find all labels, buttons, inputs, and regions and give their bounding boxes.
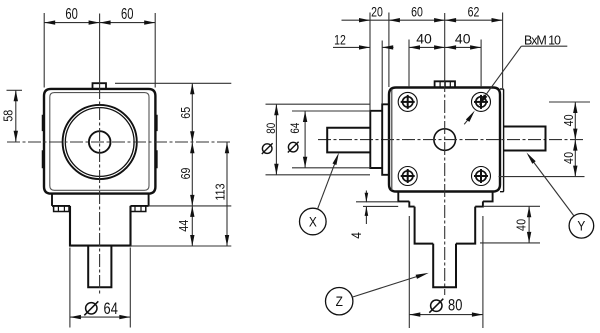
dimension 65/69/44 chain: extension lines xyxy=(115,82,231,84)
left view: right side lug upper xyxy=(155,116,157,131)
right view: bottom step Dia80 xyxy=(409,201,483,206)
dimension 4: dimension line and arrows xyxy=(365,191,367,203)
dimension 12: dimension line and arrows xyxy=(333,46,370,48)
axis label Y circle xyxy=(569,214,594,239)
right view: right cover plate xyxy=(500,89,504,192)
dimension 40 bottom boss: extension lines xyxy=(484,205,540,207)
dimension 12: extension line xyxy=(381,41,383,105)
left view: bearing bore outer circle xyxy=(63,105,137,179)
left view: right side lug lower xyxy=(155,151,157,168)
screw hole top-right M10 xyxy=(472,92,491,111)
left view: left foot xyxy=(54,206,69,212)
svg-text:58: 58 xyxy=(0,109,15,121)
svg-text:80: 80 xyxy=(448,297,462,315)
svg-text:62: 62 xyxy=(468,4,480,20)
left view: left side lug lower xyxy=(43,151,45,168)
dimension 58: extension line xyxy=(7,89,23,91)
svg-text:40: 40 xyxy=(562,114,576,126)
left view: top tab boss xyxy=(93,83,107,89)
svg-text:69: 69 xyxy=(178,167,193,179)
svg-text:40: 40 xyxy=(455,30,471,46)
screw hole top-left M10 xyxy=(398,92,417,111)
left view: gearbox body outline xyxy=(44,89,155,194)
right view: bottom boss Dia64 xyxy=(415,207,476,244)
dimension 40/40 right side: dimension line xyxy=(574,102,576,177)
dimension Dia64 left: dimension line xyxy=(304,111,306,168)
axis label Z circle xyxy=(326,288,353,315)
right view: input shaft X xyxy=(327,128,370,153)
axis label Y leader arrow xyxy=(528,155,574,216)
dimension Dia80 bottom: dimension line xyxy=(409,314,483,316)
dimension Dia64 bottom: extension lines xyxy=(69,248,71,328)
dimension 40 bottom boss: dimension line xyxy=(528,206,530,243)
axis label Z leader arrow xyxy=(352,276,418,297)
svg-text:Z: Z xyxy=(336,293,343,309)
dimension 40/40 right side: extension lines xyxy=(549,101,590,103)
label BxM 10 second arrow xyxy=(464,117,470,125)
left view: neck boss Dia64 xyxy=(70,206,131,246)
svg-text:60: 60 xyxy=(411,4,423,20)
left view: bearing bore inner circle xyxy=(65,108,134,177)
dimension Dia80 bottom: extension lines xyxy=(408,216,410,328)
dimension 58: dimension line xyxy=(15,90,17,142)
svg-text:64: 64 xyxy=(289,123,302,134)
dimension 20/60/62 top: dimension line xyxy=(342,19,503,21)
dimension Dia80 left: extension lines xyxy=(266,103,371,105)
svg-text:40: 40 xyxy=(562,152,576,164)
dimension 40/40: extension lines xyxy=(408,40,410,88)
svg-text:113: 113 xyxy=(213,183,228,200)
svg-text:X: X xyxy=(309,213,317,229)
svg-text:60: 60 xyxy=(65,5,77,22)
svg-text:60: 60 xyxy=(121,5,133,22)
dimension Dia80 bottom text xyxy=(431,300,442,311)
left view: right foot xyxy=(130,206,145,212)
left view: bottom flange xyxy=(52,194,149,206)
dimension Dia64 left: extension lines xyxy=(292,110,371,112)
right view: left plate Dia80 xyxy=(382,104,388,175)
dimension Dia64 bottom text xyxy=(86,303,97,314)
axis label X leader arrow xyxy=(318,160,337,209)
dimension 4: extension lines xyxy=(356,201,398,203)
left view: output shaft Z xyxy=(88,246,111,288)
right view: gearbox body outline xyxy=(389,88,500,192)
right view: output shaft Z xyxy=(433,244,456,288)
screw hole bottom-right M10 xyxy=(472,167,491,186)
left view: vertical centerline xyxy=(99,14,101,87)
left view: shaft hub circle xyxy=(89,131,111,153)
svg-text:40: 40 xyxy=(416,30,432,46)
label BxM 10 leader xyxy=(521,45,567,47)
svg-text:64: 64 xyxy=(104,300,118,318)
svg-text:80: 80 xyxy=(265,123,278,134)
svg-text:40: 40 xyxy=(515,219,529,231)
right view: center shaft circle xyxy=(434,129,456,151)
right view: top ribbed tab xyxy=(435,81,455,87)
right view: left boss Dia64 xyxy=(370,111,382,168)
svg-text:Y: Y xyxy=(577,218,585,234)
right view: bottom flange xyxy=(398,192,492,202)
dimension Dia64 bottom: dimension line xyxy=(70,316,130,318)
right view: horizontal centerline xyxy=(318,139,586,141)
right view: inner edge line left xyxy=(391,89,393,190)
right view: vertical centerline xyxy=(444,13,446,79)
svg-text:65: 65 xyxy=(178,107,193,119)
left view: cover plate inner outline xyxy=(50,93,149,191)
dimension 60-60 top: extension lines xyxy=(43,13,45,88)
svg-text:20: 20 xyxy=(371,4,383,20)
right view: output shaft Y xyxy=(504,127,546,151)
svg-text:12: 12 xyxy=(334,32,346,48)
dimension 20/60/62 top: extension lines xyxy=(369,13,371,111)
svg-text:BxM 10: BxM 10 xyxy=(524,33,561,47)
dimension chain line 65-69-44 xyxy=(191,83,193,246)
dimension 40/40: dimension line xyxy=(409,46,481,48)
left view: left side lug upper xyxy=(43,116,45,131)
screw hole bottom-left M10 xyxy=(398,167,417,186)
svg-text:4: 4 xyxy=(348,232,364,239)
axis label X circle xyxy=(300,208,327,235)
dimension Dia80 left: dimension line xyxy=(275,104,277,175)
left view: horizontal centerline xyxy=(7,141,231,143)
svg-text:44: 44 xyxy=(176,220,191,232)
dimension 113: dimension line xyxy=(226,142,228,246)
dimension 60-60 top: dimension line xyxy=(44,22,155,24)
